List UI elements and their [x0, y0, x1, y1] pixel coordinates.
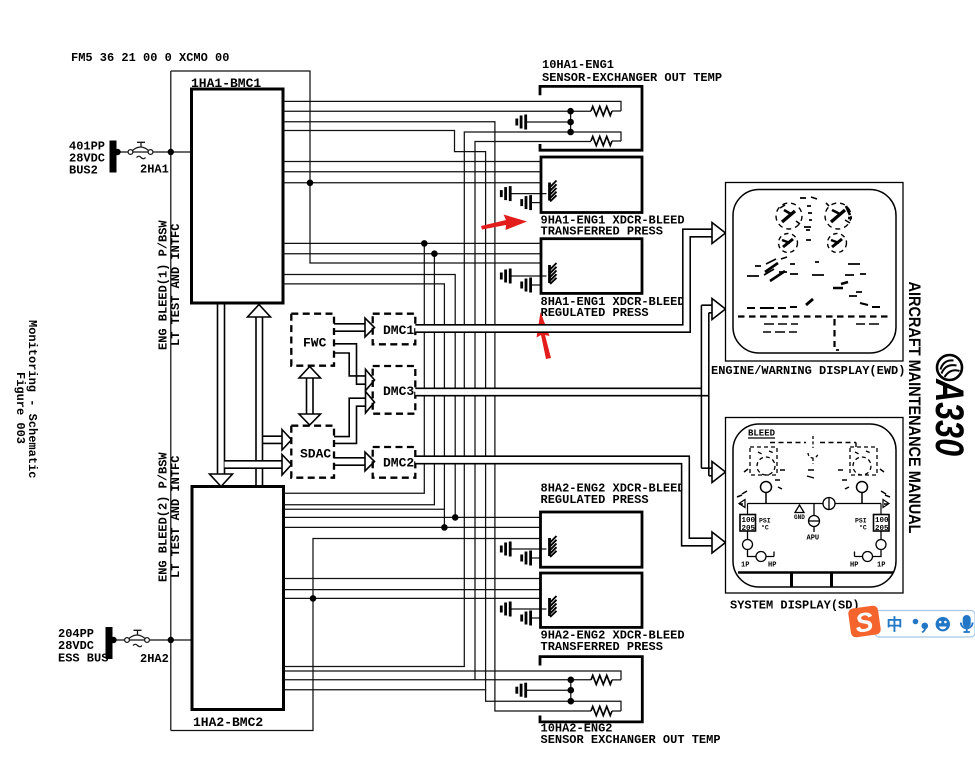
svg-text:FWC: FWC: [303, 336, 327, 351]
svg-text:1P: 1P: [741, 562, 749, 570]
svg-text:°C: °C: [859, 524, 867, 532]
display unit EWD outer box: [726, 183, 904, 362]
SD bus valve: [823, 498, 835, 510]
svg-text:DMC1: DMC1: [383, 323, 414, 338]
svg-text:BUS2: BUS2: [69, 164, 98, 178]
shield terminator 8HA1 upper: [501, 269, 510, 284]
wire BMC1 to 10HA1 sense A: [283, 101, 621, 111]
dashed box DMC2: [373, 447, 416, 478]
EWD engine dial lower left: [779, 234, 798, 253]
svg-text:Figure 003: Figure 003: [13, 372, 27, 444]
wire BMC2 to 9HA2 a: [284, 578, 541, 580]
transducer box 9HA2: [541, 573, 643, 627]
dashed box DMC3: [373, 366, 416, 414]
svg-text:GND: GND: [794, 514, 805, 521]
wire 401PP feed to BMC1: [117, 151, 192, 153]
resistor 10HA1 upper: [591, 107, 612, 116]
Sogou icon microphone: [961, 616, 973, 633]
computer box 1HA2-BMC2: [192, 487, 284, 710]
svg-text:SENSOR EXCHANGER OUT TEMP: SENSOR EXCHANGER OUT TEMP: [541, 733, 721, 747]
wire power-bus left vertical: [170, 71, 172, 731]
shield terminator 8HA2 lower: [522, 551, 531, 566]
svg-text:DMC3: DMC3: [383, 384, 414, 399]
svg-text:TRANSFERRED PRESS: TRANSFERRED PRESS: [541, 640, 663, 654]
resistor 10HA2 upper: [591, 675, 612, 684]
pressure port hatch 9HA1: [550, 181, 557, 202]
wire BMC1 to 9HA1 a: [283, 161, 541, 163]
Sogou logo tile: [848, 605, 882, 639]
wire BMC1 to 9HA1 b: [283, 171, 541, 173]
svg-text:1HA2-BMC2: 1HA2-BMC2: [193, 715, 263, 730]
display unit SD screen: [733, 424, 896, 587]
SD bus end triangle right: [883, 500, 889, 508]
wire BMC2 to 9HA2 c: [284, 597, 541, 599]
Sogou icon punctuation: [913, 619, 928, 633]
wire power-bus bottom run to 8HA2: [171, 539, 541, 731]
bus bar 401PP: [110, 141, 117, 173]
wire 9HA1 shield2 link: [532, 202, 541, 204]
svg-text:AIRCRAFT MAINTENANCE MANUAL: AIRCRAFT MAINTENANCE MANUAL: [905, 282, 924, 534]
arrow FWC to DMC1: [334, 324, 365, 331]
bus channel BMC1 to BMC2 (down arrow): [218, 303, 225, 474]
SD bus end triangle left: [739, 500, 745, 508]
transducer box 8HA1: [541, 239, 642, 294]
shield terminator 10HA2: [517, 683, 526, 698]
wire 9HA1 shield1 link to hatch: [512, 193, 547, 195]
Sogou icon smiley: [936, 617, 950, 631]
svg-text:SENSOR-EXCHANGER OUT TEMP: SENSOR-EXCHANGER OUT TEMP: [542, 71, 722, 85]
svg-text:1P: 1P: [877, 562, 885, 570]
SD crossbleed dashed duct: [770, 443, 856, 448]
wire DMC2 output channel to SD arrow: [415, 460, 712, 542]
arrow FWC to DMC3: [334, 344, 366, 384]
SD left pressure box 100/205: [747, 504, 749, 515]
EWD engine dial upper right: [825, 203, 851, 229]
circuit breaker 2HA1: [128, 142, 153, 158]
wire DMC3 output channel riser: [415, 308, 705, 473]
SD crossbleed valve: [808, 436, 818, 464]
pressure port hatch 8HA2: [550, 536, 557, 557]
SD GND triangle: [795, 505, 804, 513]
SD right pressure box 100/205: [880, 504, 882, 515]
dashed box DMC1: [373, 314, 416, 345]
svg-text:SYSTEM DISPLAY(SD): SYSTEM DISPLAY(SD): [730, 599, 860, 613]
svg-text:2HA1: 2HA1: [140, 163, 169, 177]
wire BMC1 to 10HA1 sense B: [283, 110, 591, 112]
svg-text:ENGINE/WARNING DISPLAY(EWD): ENGINE/WARNING DISPLAY(EWD): [711, 364, 905, 378]
bus bar 204PP: [106, 627, 113, 659]
SD bottom tick right: [830, 573, 833, 588]
node junction 401PP at bus bar: [114, 149, 120, 155]
arrow FWC-SDAC bidirectional: [307, 377, 314, 415]
pressure port hatch 9HA2: [550, 596, 557, 617]
svg-text:HP: HP: [768, 562, 776, 570]
wire vertical x464.3 BMC2 to 10HA1 resistor lower-right: [284, 132, 621, 667]
sensor bracket 10HA1: [540, 86, 642, 150]
shield terminator 8HA1 lower: [522, 278, 531, 293]
dashed box SDAC: [291, 426, 334, 478]
wire 8HA1 shield2 link: [532, 284, 541, 286]
svg-text:A330: A330: [927, 378, 971, 456]
resistor 10HA2 lower: [591, 707, 612, 716]
wire 8HA2 shield2 link: [532, 557, 541, 559]
wire BMC1 jog down-riser x485.6: [283, 131, 486, 690]
computer box 1HA1-BMC1: [192, 89, 284, 303]
svg-text:BLEED: BLEED: [748, 429, 776, 439]
svg-text:FM5 36 21 00 0 XCMO 00: FM5 36 21 00 0 XCMO 00: [71, 51, 229, 65]
svg-text:PSI: PSI: [759, 518, 771, 525]
wire BMC1 to 9HA1 c: [283, 182, 541, 184]
arrow SDAC to DMC2: [334, 458, 365, 465]
svg-text:205: 205: [742, 525, 756, 533]
EWD small readouts: [747, 197, 880, 350]
wire vertical x475 BMC2 to 10HA1 resistor lower-left: [475, 142, 591, 680]
shield terminator 9HA2 upper: [501, 602, 510, 617]
pressure port hatch 8HA1: [550, 263, 557, 284]
EWD dashed divider vertical: [833, 319, 835, 347]
svg-text:2HA2: 2HA2: [140, 652, 169, 666]
svg-text:APU: APU: [807, 535, 820, 543]
EWD dashed divider horizontal: [738, 315, 891, 317]
node junction 204PP at power-bus: [168, 637, 174, 643]
node junction 204PP at bus bar: [110, 637, 116, 643]
svg-text:PSI: PSI: [855, 518, 867, 525]
shield terminator 9HA1 lower: [522, 195, 531, 210]
sensor bracket 10HA2: [540, 657, 642, 722]
SD apu duct tiny marks: [807, 470, 814, 478]
svg-text:TRANSFERRED PRESS: TRANSFERRED PRESS: [541, 225, 663, 239]
svg-text:中: 中: [887, 615, 903, 634]
svg-text:100: 100: [875, 517, 889, 525]
SD bottom tick left: [790, 573, 793, 588]
wire BMC2 to 8HA2 b: [284, 516, 541, 518]
EWD engine dial lower right: [828, 234, 847, 253]
node dots top sensors and risers: [307, 108, 574, 257]
logo Airbus roundel: [937, 355, 962, 380]
wire power-bus top run to 8HA1: [171, 71, 541, 263]
transducer box 9HA1: [541, 157, 642, 213]
red arrow pointing at 9HA1: [481, 215, 527, 231]
wire BMC1 to 8HA1 b: [283, 253, 541, 255]
wire 10HA2 junction column: [570, 680, 572, 701]
wire 9HA2 shield1 link to hatch: [512, 608, 547, 610]
EWD memo text blocks: [763, 324, 879, 332]
Sogou input toolbar background: [875, 611, 975, 638]
SD right engine bleed cluster: [850, 447, 877, 475]
wire BMC2 to 8HA2 c: [284, 526, 541, 528]
wire 9HA2 shield2 link: [532, 617, 541, 619]
wire 10HA1 shield link: [527, 121, 571, 123]
arrow into SD upper: [712, 462, 726, 483]
wire BMC2 to 10HA2 resistor upper-right: [284, 671, 621, 680]
svg-text:°C: °C: [761, 524, 769, 532]
wire BMC2 to 8HA2 a: [284, 508, 444, 510]
svg-text:REGULATED PRESS: REGULATED PRESS: [541, 306, 649, 320]
wire 8HA2 shield1 link to hatch: [512, 548, 547, 550]
wire 204PP feed to BMC2: [113, 639, 193, 641]
wire BMC2 to 10HA2 resistor upper-left: [284, 679, 591, 681]
circuit breaker 2HA2: [125, 630, 150, 646]
SD left IP HP valves: [743, 531, 775, 562]
node dots bottom sensors and risers: [310, 514, 574, 704]
display unit EWD screen: [733, 190, 896, 354]
shield terminator 10HA1: [517, 115, 526, 130]
svg-text:DMC2: DMC2: [383, 456, 414, 471]
SD main bleed bus line: [748, 503, 882, 505]
wire DMC1 output channel to EWD arrow: [415, 233, 712, 329]
SD bottom frame line: [738, 571, 893, 574]
wire BMC1 down-riser x494.9 to 10HA2 resistor lower-left: [283, 122, 591, 711]
dashed box FWC: [291, 314, 334, 366]
svg-text:10HA1-ENG1: 10HA1-ENG1: [542, 58, 614, 72]
transducer box 8HA2: [541, 512, 643, 567]
SD APU valve: [809, 504, 820, 533]
svg-text:REGULATED PRESS: REGULATED PRESS: [541, 493, 649, 507]
EWD engine dial upper left: [776, 203, 802, 229]
wire 10HA2 shield link: [527, 689, 571, 691]
wire riser x424.3 BMC2 to 8HA1: [284, 243, 424, 493]
display unit SD outer box: [726, 418, 904, 594]
shield terminator 9HA2 lower: [522, 611, 531, 626]
red arrow pointing at 8HA1 label: [537, 312, 552, 359]
arrow into SD lower: [712, 532, 726, 553]
node junction 401PP at power-bus: [168, 149, 174, 155]
wire BMC2 to 9HA2 b: [284, 589, 541, 591]
bus channel BMC2 to BMC1 (up arrow): [256, 317, 263, 487]
wire 8HA1 shield1 link to hatch: [512, 275, 547, 277]
SD right IP HP valves: [855, 531, 887, 562]
wire BMC1 riser x455.2 to 8HA2: [283, 275, 455, 518]
wire BMC2 jog to 10HA2 resistor lower-right: [284, 690, 621, 711]
resistor 10HA1 lower: [591, 137, 612, 146]
arrow into EWD lower: [712, 299, 726, 320]
svg-text:100: 100: [742, 517, 756, 525]
SD left engine bleed cluster: [750, 447, 777, 475]
wire BMC1 riser x444.4 to 8HA2: [283, 284, 444, 528]
svg-text:205: 205: [875, 525, 889, 533]
arrow BMC channel to SDAC upper: [263, 436, 283, 443]
wire BMC1 to 8HA1 a: [283, 242, 541, 244]
arrow BMC channel to SDAC lower: [225, 461, 281, 467]
shield terminator 9HA1 upper: [501, 186, 510, 201]
svg-text:HP: HP: [850, 562, 858, 570]
shield terminator 8HA2 upper: [501, 542, 510, 557]
svg-text:SDAC: SDAC: [300, 447, 331, 462]
svg-text:ESS BUS: ESS BUS: [58, 652, 108, 666]
wire riser x434.4 BMC2 to 8HA1: [284, 254, 434, 505]
wire 10HA1 junction column: [570, 111, 572, 132]
arrow SDAC to DMC3: [334, 398, 366, 443]
arrow into EWD upper: [712, 223, 726, 244]
